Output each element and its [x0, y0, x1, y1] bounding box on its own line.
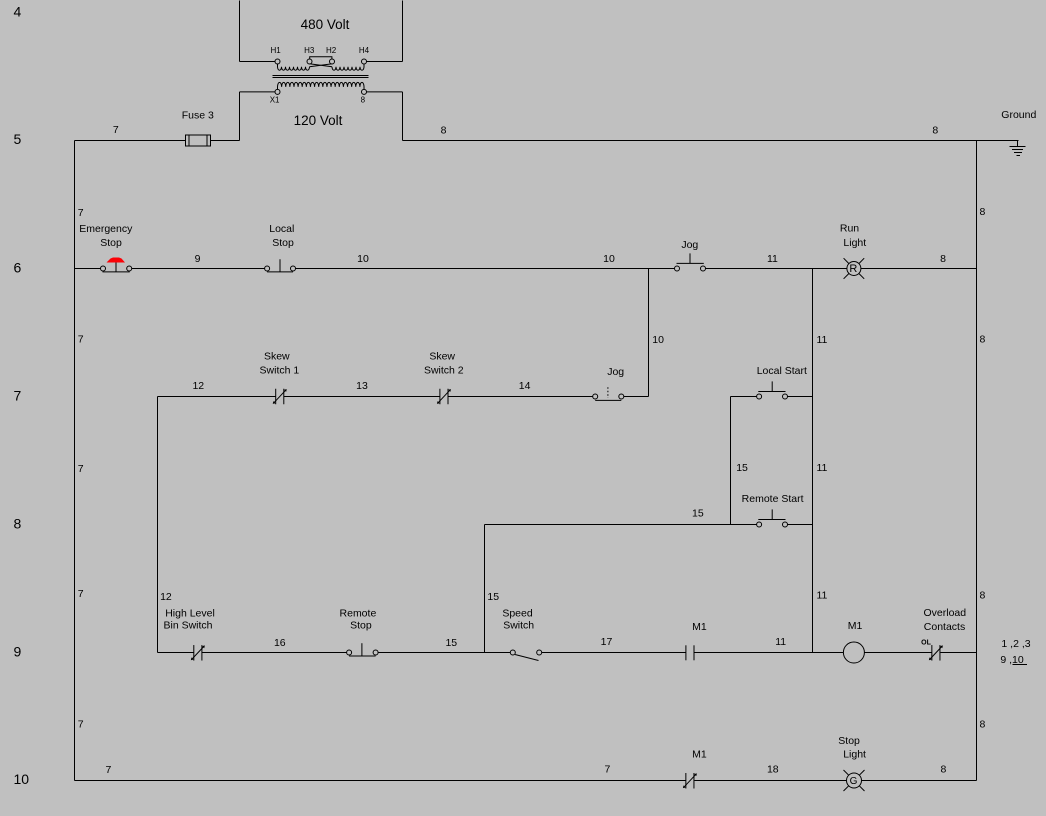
transformer T1 primary winding [278, 64, 310, 70]
svg-text:M1: M1 [692, 748, 707, 760]
svg-text:14: 14 [519, 380, 531, 392]
svg-text:7: 7 [78, 463, 84, 475]
wire vertical 649 row6 to row7 [648, 269, 650, 397]
svg-text:Stop: Stop [100, 237, 122, 249]
contact skew switch 2 (NC) [437, 389, 451, 405]
svg-text:Stop: Stop [838, 735, 860, 747]
contact M1 aux (NO) row9 [686, 645, 694, 660]
transformer T1 H2-H3 jumper [310, 57, 332, 59]
svg-text:Skew: Skew [429, 350, 455, 362]
svg-text:10: 10 [603, 253, 615, 265]
pushbutton remote start (NO) [757, 509, 788, 527]
svg-text:OL: OL [921, 640, 931, 647]
svg-text:Jog: Jog [607, 366, 624, 378]
emergency stop mushroom cap (red) [107, 258, 126, 263]
wire row6 [75, 268, 977, 270]
wire row7 left segment [158, 396, 649, 398]
svg-text:8: 8 [980, 206, 986, 218]
pilot light run (R) [844, 258, 865, 279]
svg-text:11: 11 [817, 334, 828, 346]
svg-text:X1: X1 [270, 95, 280, 104]
svg-text:10: 10 [14, 771, 30, 787]
svg-text:Ground: Ground [1001, 109, 1036, 121]
svg-text:8: 8 [940, 253, 946, 265]
svg-text:8: 8 [932, 125, 938, 137]
contact M1 aux (NC) row10 [683, 773, 697, 789]
svg-text:Local: Local [269, 223, 294, 235]
svg-text:Stop: Stop [350, 619, 372, 631]
svg-text:Remote Start: Remote Start [742, 493, 804, 505]
svg-text:1 ,2 ,3: 1 ,2 ,3 [1001, 638, 1030, 650]
svg-text:7: 7 [78, 718, 84, 730]
underline under 10 [1013, 664, 1028, 666]
pushbutton jog row7 (NO, linked) [593, 387, 624, 400]
svg-text:8: 8 [980, 719, 986, 731]
svg-text:4: 4 [14, 3, 22, 19]
svg-text:Stop: Stop [272, 237, 294, 249]
svg-text:Contacts: Contacts [924, 621, 965, 633]
svg-text:9: 9 [195, 253, 201, 265]
wire vertical 730 row7 to row8 [730, 397, 732, 525]
svg-text:7: 7 [105, 764, 111, 776]
svg-text:5: 5 [14, 131, 22, 147]
svg-text:High Level: High Level [165, 607, 215, 619]
svg-text:10: 10 [652, 334, 664, 346]
svg-text:15: 15 [487, 591, 499, 603]
wire row5 line 120V hot [75, 140, 1019, 142]
transformer T1 secondary winding [278, 82, 365, 89]
pushbutton local stop (NC) [265, 259, 296, 272]
svg-text:11: 11 [775, 636, 786, 648]
svg-text:8: 8 [14, 516, 22, 532]
wire secondary left [240, 92, 276, 141]
svg-text:G: G [850, 776, 858, 787]
svg-text:M1: M1 [692, 621, 707, 633]
svg-text:18: 18 [767, 764, 779, 776]
transformer T1 core [273, 76, 369, 78]
svg-text:Run: Run [840, 222, 859, 234]
wire left rail L1 [74, 141, 76, 781]
svg-text:11: 11 [767, 253, 778, 265]
transformer T1 primary terminals H1 H3 H2 H4 [275, 59, 280, 64]
svg-text:H4: H4 [359, 46, 370, 55]
svg-text:Jog: Jog [681, 239, 698, 251]
svg-text:7: 7 [78, 207, 84, 219]
svg-text:480 Volt: 480 Volt [301, 17, 350, 32]
svg-text:15: 15 [445, 637, 457, 649]
wire secondary right [367, 92, 403, 141]
pilot light stop (G) [844, 770, 865, 791]
svg-text:12: 12 [192, 380, 204, 392]
wire primary right drop [367, 1, 403, 62]
pushbutton local start (NO) [757, 381, 788, 399]
svg-text:15: 15 [692, 507, 704, 519]
wire row10 [75, 780, 977, 782]
svg-text:Overload: Overload [923, 607, 966, 619]
svg-text:H3: H3 [304, 46, 315, 55]
svg-text:8: 8 [980, 333, 986, 345]
svg-text:11: 11 [817, 589, 828, 601]
svg-text:Light: Light [843, 237, 866, 249]
pushbutton remote stop (NC) [347, 643, 379, 656]
svg-text:Switch 2: Switch 2 [424, 365, 464, 377]
fuse F3 [186, 135, 211, 146]
svg-text:Light: Light [843, 749, 866, 761]
svg-text:16: 16 [274, 637, 286, 649]
svg-text:17: 17 [601, 636, 613, 648]
svg-text:8: 8 [361, 95, 366, 104]
transformer T1 secondary terminals X1 and 8 [275, 89, 280, 94]
wire row8 [485, 524, 813, 526]
svg-text:Bin Switch: Bin Switch [163, 619, 212, 631]
svg-text:6: 6 [14, 259, 22, 275]
svg-text:Emergency: Emergency [79, 223, 133, 235]
transformer T1 crossing leads [310, 64, 333, 67]
svg-text:10: 10 [357, 253, 369, 265]
svg-text:7: 7 [78, 588, 84, 600]
svg-text:11: 11 [817, 462, 828, 474]
pushbutton emergency stop (NC, mushroom head) [101, 262, 132, 272]
contact skew switch 1 (NC) [273, 389, 287, 405]
svg-text:7: 7 [14, 388, 22, 404]
svg-text:Switch 1: Switch 1 [260, 365, 300, 377]
wire row7 right segment [731, 396, 813, 398]
svg-text:8: 8 [441, 124, 447, 136]
svg-text:R: R [849, 263, 857, 275]
svg-text:7: 7 [78, 333, 84, 345]
wire primary left drop [240, 1, 276, 62]
svg-text:120 Volt: 120 Volt [294, 113, 343, 128]
ground symbol [1010, 141, 1026, 156]
wire vertical 157 row7 to row9 [157, 397, 159, 653]
svg-text:8: 8 [940, 764, 946, 776]
contact overload OL (NC) [929, 645, 943, 661]
svg-text:8: 8 [980, 589, 986, 601]
svg-text:M1: M1 [848, 620, 863, 632]
svg-text:Switch: Switch [503, 619, 534, 631]
coil M1 [843, 642, 864, 663]
svg-text:Local Start: Local Start [757, 365, 807, 377]
svg-text:13: 13 [356, 380, 368, 392]
svg-text:7: 7 [113, 124, 119, 136]
svg-text:12: 12 [160, 591, 172, 603]
svg-text:Remote: Remote [340, 607, 377, 619]
wire row9 [158, 652, 977, 654]
switch speed (flow switch, NO) [510, 650, 541, 661]
svg-text:7: 7 [604, 764, 610, 776]
wire vertical 812 row6 to row9 [812, 269, 814, 653]
svg-text:Speed: Speed [502, 607, 533, 619]
svg-text:H2: H2 [326, 46, 337, 55]
svg-text:9: 9 [14, 644, 22, 660]
svg-text:Skew: Skew [264, 350, 290, 362]
svg-text:15: 15 [736, 462, 748, 474]
wire vertical 485 row8 to row9 [484, 525, 486, 653]
svg-text:H1: H1 [270, 46, 281, 55]
svg-text:Fuse 3: Fuse 3 [182, 109, 214, 121]
pushbutton jog row6 (NO) [675, 253, 706, 271]
wire right rail L2 [976, 141, 978, 781]
contact high level bin switch (NC) [191, 645, 205, 661]
